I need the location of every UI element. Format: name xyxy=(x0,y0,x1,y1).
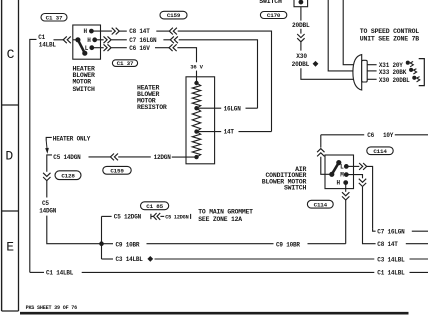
wire 20DBL segment xyxy=(300,29,302,34)
svg-text:H: H xyxy=(83,28,87,35)
resistor element lower (14T to 12DGN tap) xyxy=(192,132,200,158)
svg-text:C6: C6 xyxy=(367,132,374,139)
zone border column xyxy=(1,0,3,311)
wire C5 12DGN from bus xyxy=(102,215,112,217)
svg-text:X31 20Y: X31 20Y xyxy=(379,62,403,69)
wire 36V into resistor box xyxy=(196,71,198,83)
svg-text:C1 14LBL: C1 14LBL xyxy=(377,270,405,277)
svg-text:H: H xyxy=(336,180,340,187)
svg-text:C9 10BR: C9 10BR xyxy=(276,241,300,248)
connector oval C1 85 xyxy=(141,202,169,210)
wire C6 riser lower xyxy=(321,157,330,175)
wire segment row C6 xyxy=(111,47,127,49)
wire H riser to C9 row xyxy=(345,200,347,244)
svg-text:C3 14LBL: C3 14LBL xyxy=(116,256,144,263)
svg-text:10Y: 10Y xyxy=(383,132,394,139)
wire C9 from junction xyxy=(102,243,114,245)
wire X30 riser to grommet row xyxy=(301,68,354,79)
wire X33 from top edge xyxy=(328,0,354,71)
junction node C9/C5/C3 xyxy=(100,242,104,246)
svg-text:H: H xyxy=(87,37,91,44)
svg-text:C6 16V: C6 16V xyxy=(129,45,150,52)
wire segment row C7 xyxy=(111,39,127,41)
svg-text:C3 14LBL: C3 14LBL xyxy=(377,256,405,263)
wire C8 to edge xyxy=(406,243,428,245)
svg-text:C5 12DGN: C5 12DGN xyxy=(114,214,142,221)
connector oval C114 (lower) xyxy=(307,200,333,208)
svg-text:PKS SHEET 39 OF 76: PKS SHEET 39 OF 76 xyxy=(26,305,78,311)
heater switch lever xyxy=(76,38,80,42)
wire L contact out xyxy=(348,165,359,167)
wire segment C7 to inline connector xyxy=(163,39,170,41)
wire to second C5 12DGN xyxy=(160,215,164,217)
svg-text:SWITCH: SWITCH xyxy=(284,185,307,192)
wire 20DBL segment 2 xyxy=(300,42,302,51)
svg-text:C170: C170 xyxy=(267,12,281,19)
svg-text:C9 10BR: C9 10BR xyxy=(116,241,140,248)
svg-text:C8 14T: C8 14T xyxy=(129,28,150,35)
terminal X33 xyxy=(410,68,413,71)
svg-text:X30 20DBL: X30 20DBL xyxy=(379,77,410,84)
heater blower motor switch box xyxy=(73,25,101,59)
wire L to connector xyxy=(94,47,104,49)
wire C6 16V to resistor top xyxy=(177,48,196,63)
wire to heater switch pivot xyxy=(54,39,65,41)
air conditioner blower motor switch box xyxy=(325,155,354,189)
wire bus riser C5/C9/C3 xyxy=(101,216,103,259)
svg-text:TO MAIN GROMMET: TO MAIN GROMMET xyxy=(198,209,253,216)
wire M contact out xyxy=(348,175,362,179)
inline connector chevron C5 14DGN xyxy=(110,154,114,161)
wire X30 through grommet xyxy=(367,78,377,80)
svg-text:16LGN: 16LGN xyxy=(224,105,242,112)
connector oval C159 (mid) xyxy=(103,166,131,174)
wire 16LGN tap to C7 riser xyxy=(246,107,258,109)
wire H contact down xyxy=(345,185,347,192)
svg-text:C8 14T: C8 14T xyxy=(377,241,398,248)
svg-text:C7 16LGN: C7 16LGN xyxy=(129,37,157,44)
svg-text:C: C xyxy=(7,47,15,62)
wire 12DGN to resistor bottom tap xyxy=(172,156,197,158)
wire C1 to edge xyxy=(410,271,428,273)
svg-text:M: M xyxy=(340,172,344,179)
wire X31 through grommet xyxy=(367,64,377,66)
wire L to C7 riser xyxy=(367,166,373,229)
svg-text:14LBL: 14LBL xyxy=(39,41,57,48)
svg-text:C1: C1 xyxy=(38,34,45,41)
bottom border line xyxy=(20,312,409,315)
svg-text:X33 20BK: X33 20BK xyxy=(379,69,407,76)
inline connector chevron C8 xyxy=(169,28,173,35)
svg-text:C114: C114 xyxy=(373,148,387,155)
wire segment C6 to inline connector xyxy=(155,47,169,49)
connector chevron out L xyxy=(104,44,108,51)
connector chevron out H2 xyxy=(104,36,108,43)
wire C5 14DGN corner xyxy=(47,155,52,172)
svg-text:14T: 14T xyxy=(224,129,235,136)
connector chevron out H1 xyxy=(112,28,116,35)
connector oval C1 37 (top) xyxy=(41,14,67,22)
svg-text:SWITCH: SWITCH xyxy=(73,86,96,93)
wire C5 riser upper xyxy=(46,181,48,198)
svg-text:C1 14LBL: C1 14LBL xyxy=(46,270,74,277)
svg-text:MOTOR: MOTOR xyxy=(73,78,92,85)
speed control bracket xyxy=(419,59,425,86)
wire C9 10BR middle xyxy=(147,243,274,245)
wire C3 middle xyxy=(155,258,375,260)
heater blower motor resistor box xyxy=(186,77,215,164)
resistor element middle (16LGN to 14T tap) xyxy=(192,108,200,131)
svg-text:HEATER ONLY: HEATER ONLY xyxy=(53,136,91,143)
terminal X30 xyxy=(413,76,416,79)
firewall grommet xyxy=(353,55,362,90)
wire chevron to pivot xyxy=(73,39,77,41)
connector chevron down H riser xyxy=(342,192,349,196)
wire C1 middle xyxy=(82,271,375,273)
switch box with terminal xyxy=(294,0,308,7)
svg-text:20DBL: 20DBL xyxy=(292,22,310,29)
wire 12DGN segment xyxy=(118,156,151,158)
wire C1 14LBL corner and left riser xyxy=(30,39,37,272)
svg-text:X30: X30 xyxy=(296,53,307,60)
wire C5 riser lower to junction xyxy=(47,216,100,244)
svg-text:D: D xyxy=(5,149,13,164)
connector chevron up C6 riser xyxy=(317,149,324,153)
wire 14T tap to C8 riser xyxy=(239,131,272,133)
wire C3 from junction xyxy=(102,258,114,260)
connector chevron C1 into switch xyxy=(63,36,67,43)
wire segment row C8 xyxy=(120,30,127,32)
svg-text:14DGN: 14DGN xyxy=(39,208,57,215)
svg-text:E: E xyxy=(6,239,14,254)
wire C7 corner xyxy=(373,229,376,231)
resistor 14T tap wire xyxy=(198,131,221,133)
svg-text:C1 37: C1 37 xyxy=(117,60,134,67)
wire M riser to C8 row xyxy=(363,187,376,244)
svg-text:SEE ZONE 12A: SEE ZONE 12A xyxy=(198,216,242,223)
svg-text:TO SPEED CONTROL: TO SPEED CONTROL xyxy=(360,28,420,35)
wire C6 10Y row xyxy=(321,134,364,136)
inline connector chevron C6 xyxy=(169,44,173,51)
wire C6 10Y to edge xyxy=(395,134,428,136)
svg-text:36 V: 36 V xyxy=(190,64,203,71)
wire C5 row to inline connector xyxy=(89,156,111,158)
wire C8 14T to resistor 14T tap xyxy=(178,31,272,131)
note HEATER ONLY with pointer xyxy=(46,137,52,140)
svg-text:C1 37: C1 37 xyxy=(46,14,63,21)
svg-text:C159: C159 xyxy=(110,167,124,174)
svg-text:UNIT SEE ZONE 7B: UNIT SEE ZONE 7B xyxy=(360,35,420,42)
svg-text:20DBL: 20DBL xyxy=(292,61,310,68)
connector oval C114 (upper) xyxy=(367,147,393,155)
wire C7 16LGN to resistor 16LGN tap xyxy=(179,40,258,108)
svg-text:C5 12DGN: C5 12DGN xyxy=(165,214,188,220)
inline connector C5 12DGN tick xyxy=(150,214,152,219)
svg-text:C7 16LGN: C7 16LGN xyxy=(377,228,405,235)
wire H2 to connector xyxy=(97,39,104,41)
svg-text:C128: C128 xyxy=(61,172,75,179)
inline connector end tick xyxy=(190,214,192,219)
svg-text:C5: C5 xyxy=(42,200,49,207)
wire C3 to edge xyxy=(410,258,428,260)
svg-text:L: L xyxy=(340,164,344,171)
connector chevron down M riser xyxy=(359,179,366,183)
connector chevron down C5 riser xyxy=(43,173,50,177)
wire C1 from left riser xyxy=(30,271,44,273)
a/c switch lever xyxy=(330,172,334,176)
wire C7 to edge xyxy=(412,230,428,232)
svg-text:C159: C159 xyxy=(167,12,181,19)
resistor 16LGN tap wire xyxy=(198,107,221,109)
wire X31 from top edge xyxy=(343,0,354,65)
svg-text:12DGN: 12DGN xyxy=(154,154,172,161)
connector oval C170 xyxy=(260,12,286,19)
connector oval C1 37 (lower) xyxy=(112,60,137,67)
svg-text:C114: C114 xyxy=(314,201,328,208)
terminal X31 xyxy=(406,61,409,64)
wire segment C8 to inline connector xyxy=(156,30,169,32)
resistor element upper (16V to 16LGN tap) xyxy=(192,83,200,108)
svg-text:C1 85: C1 85 xyxy=(146,203,163,210)
wire X33 through grommet xyxy=(367,70,377,72)
wire 20DBL from switch xyxy=(300,7,302,21)
svg-text:C5 14DGN: C5 14DGN xyxy=(53,154,81,161)
connector chevron out L contact xyxy=(359,163,363,170)
wire H1 to connector xyxy=(93,30,112,32)
inline connector chevron C7 xyxy=(170,36,174,43)
inline connector chevron C5 12DGN xyxy=(153,213,156,220)
connector oval C159 (top) xyxy=(160,11,187,19)
svg-text:RESISTOR: RESISTOR xyxy=(137,104,167,111)
connector chevron down 20DBL xyxy=(297,34,304,38)
wire C9 to a/c switch H riser xyxy=(308,243,346,245)
svg-text:SWITCH: SWITCH xyxy=(259,0,282,5)
connector oval C128 xyxy=(55,171,81,180)
wire C6 riser to a/c switch pivot xyxy=(320,135,322,148)
